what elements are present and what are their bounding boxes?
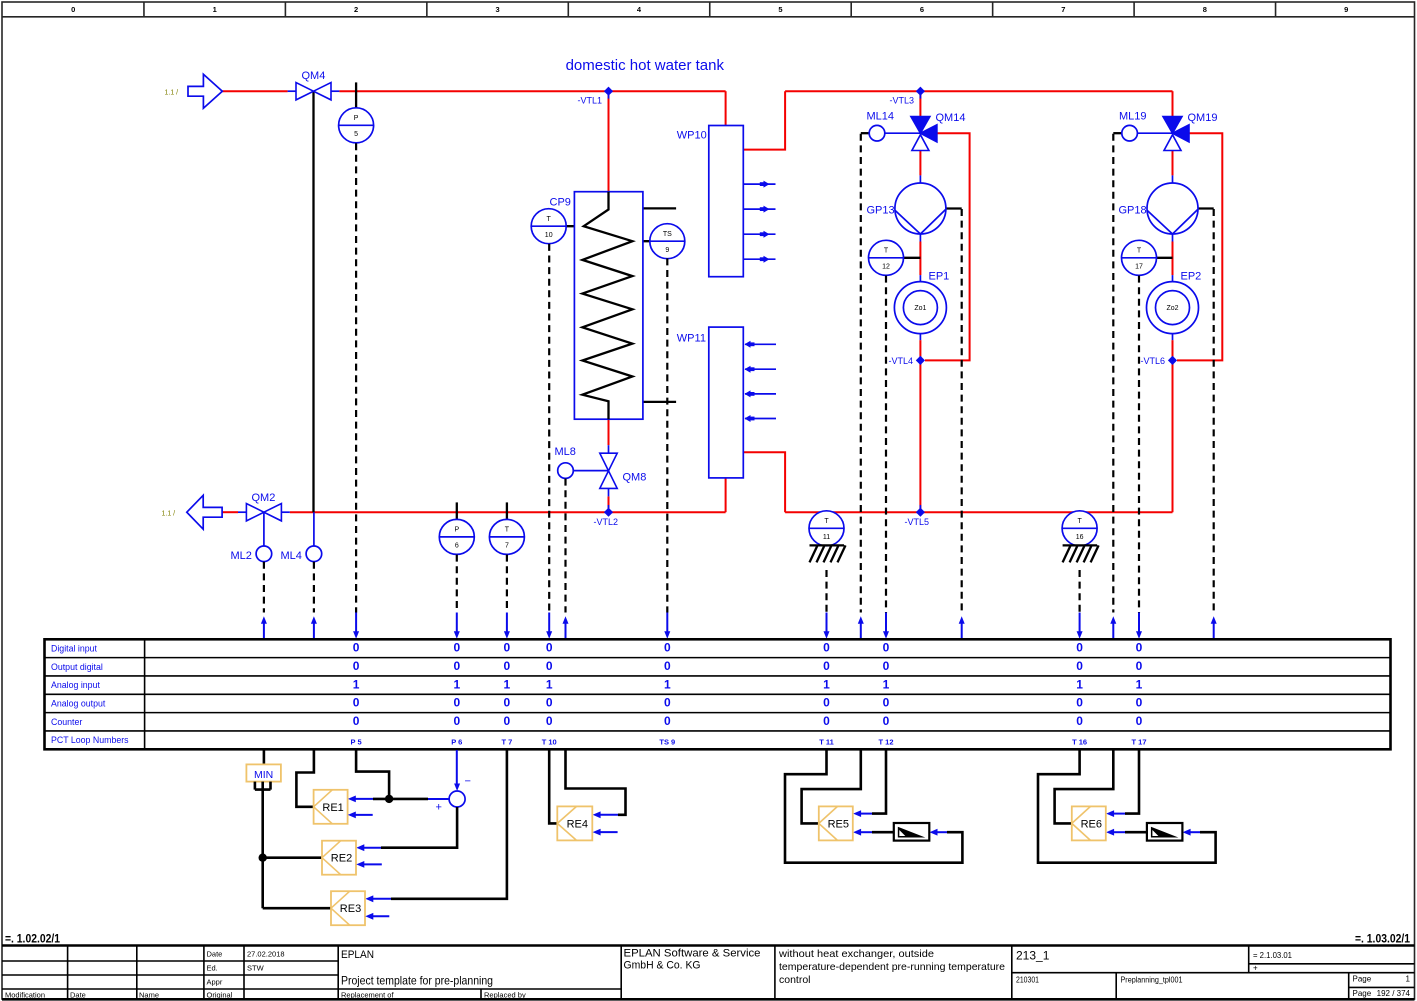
wire EP2 to return line via VTL6 bbox=[1172, 340, 1174, 512]
svg-text:6: 6 bbox=[455, 543, 459, 550]
svg-text:0: 0 bbox=[546, 659, 553, 673]
svg-text:= 2.1.03.01: = 2.1.03.01 bbox=[1253, 951, 1293, 960]
junction dot P5 branch bbox=[385, 795, 393, 803]
svg-text:4: 4 bbox=[637, 5, 642, 14]
svg-text:7: 7 bbox=[505, 543, 509, 550]
svg-text:QM14: QM14 bbox=[936, 112, 966, 124]
svg-text:Preplanning_tpl001: Preplanning_tpl001 bbox=[1121, 976, 1183, 985]
wire QM14 to pump GP13 bbox=[919, 151, 921, 176]
wire QM19 to pump GP18 bbox=[1172, 151, 1174, 176]
wire ML8 column to RE4 input 1 bbox=[566, 750, 626, 815]
WP10 output arrow 1 bbox=[744, 181, 776, 188]
svg-text:temperature-dependent pre-runn: temperature-dependent pre-running temper… bbox=[779, 961, 1005, 973]
summing point circle bbox=[449, 791, 465, 807]
svg-text:STW: STW bbox=[247, 964, 265, 973]
svg-text:10: 10 bbox=[545, 232, 553, 239]
function block MIN bbox=[246, 764, 281, 781]
svg-text:5: 5 bbox=[778, 5, 782, 14]
svg-text:12: 12 bbox=[882, 264, 890, 271]
svg-text:-VTL1: -VTL1 bbox=[578, 96, 603, 106]
svg-text:RE4: RE4 bbox=[567, 818, 588, 830]
wire EP1 to return line via VTL4 bbox=[919, 340, 921, 512]
node -VTL3 bbox=[916, 87, 925, 96]
svg-text:0: 0 bbox=[504, 659, 511, 673]
svg-text:EPLAN Software & Service: EPLAN Software & Service bbox=[624, 948, 761, 960]
wire stub QM2 left bbox=[238, 511, 246, 513]
hand switch ML4 bbox=[306, 546, 322, 562]
input arrow at x=886.0 bbox=[883, 613, 889, 639]
wire pump GP13 to EP1 bbox=[919, 242, 921, 276]
dashed signal line ML8 bbox=[564, 479, 566, 613]
ramp RE6 input arrow bbox=[1183, 829, 1200, 836]
svg-text:T: T bbox=[1137, 248, 1142, 255]
svg-text:Ed.: Ed. bbox=[207, 964, 218, 973]
RE1 input 1 arrow bbox=[348, 796, 373, 803]
svg-text:-VTL5: -VTL5 bbox=[905, 517, 930, 527]
svg-text:0: 0 bbox=[664, 641, 671, 655]
three-way valve QM14 bbox=[911, 117, 937, 151]
svg-text:6: 6 bbox=[920, 5, 924, 14]
svg-text:0: 0 bbox=[353, 641, 360, 655]
wire stub above node VTL2 bbox=[608, 505, 610, 512]
svg-text:CP9: CP9 bbox=[550, 197, 571, 209]
RE4 input 1 arrow bbox=[593, 811, 618, 818]
wire tank coil to sensor TS9 bbox=[632, 240, 649, 242]
svg-text:0: 0 bbox=[823, 714, 830, 728]
WP11 input arrow 1 bbox=[745, 341, 777, 348]
svg-text:9: 9 bbox=[665, 247, 669, 254]
svg-text:RE1: RE1 bbox=[322, 802, 343, 814]
svg-text:+: + bbox=[1253, 964, 1258, 973]
sensor TS9 bbox=[650, 224, 685, 259]
wire ramp to RE5 input 2 bbox=[872, 831, 894, 834]
svg-text:Page: Page bbox=[1353, 975, 1372, 984]
controller function block RE1 bbox=[314, 790, 348, 824]
WP11 input arrow 2 bbox=[745, 366, 777, 373]
svg-text:GmbH & Co. KG: GmbH & Co. KG bbox=[624, 960, 701, 972]
svg-text:T 7: T 7 bbox=[501, 737, 512, 746]
svg-text:2: 2 bbox=[354, 5, 358, 14]
wire ML14 column to RE5 left bbox=[802, 750, 861, 823]
input arrow at x=1079.6 bbox=[1077, 613, 1083, 639]
svg-text:EP1: EP1 bbox=[929, 271, 950, 283]
pump GP13 bbox=[895, 183, 946, 234]
svg-text:ML4: ML4 bbox=[281, 550, 302, 562]
table values row Analog output bbox=[353, 696, 1143, 710]
svg-text:EP2: EP2 bbox=[1181, 271, 1202, 283]
sensor T11 bbox=[809, 511, 844, 546]
RE5 input 2 arrow bbox=[853, 829, 872, 836]
dashed signal line T17 bbox=[1138, 276, 1140, 613]
svg-text:Page: Page bbox=[1353, 989, 1372, 998]
svg-text:0: 0 bbox=[1076, 696, 1083, 710]
node -VTL6 bbox=[1168, 356, 1177, 365]
svg-text:1: 1 bbox=[504, 677, 511, 691]
svg-text:Date: Date bbox=[207, 950, 223, 959]
wire return pipe to page arrow bbox=[222, 511, 238, 513]
svg-text:0: 0 bbox=[1136, 714, 1143, 728]
wire pump GP18 to EP2 bbox=[1172, 242, 1174, 276]
wire drop into QM19 bbox=[1172, 91, 1174, 116]
junction dot MIN bus bbox=[259, 854, 267, 862]
dashed signal line T12 bbox=[885, 276, 887, 613]
wire VTL1 drop to tank CP9 bbox=[608, 91, 610, 192]
wire junction to summing point bbox=[389, 798, 428, 801]
svg-text:Analog output: Analog output bbox=[51, 699, 106, 709]
wire T11 column loop to ramp bbox=[785, 750, 962, 863]
wire stub below node VTL3 bbox=[919, 91, 921, 98]
input arrow at x=549.2 bbox=[546, 613, 552, 639]
column header row bbox=[2, 2, 1415, 17]
wire stub GP13 bottom bbox=[919, 234, 921, 242]
ramp function ramp for RE5 bbox=[894, 823, 930, 841]
hand switch ML14 bbox=[869, 125, 885, 141]
wire stub QM2 right bbox=[281, 511, 289, 513]
svg-text:1.1 /: 1.1 / bbox=[162, 511, 176, 518]
dashed signal line T11 bbox=[825, 570, 827, 613]
wire P6 column to summing point bbox=[456, 750, 458, 785]
I/O summary table bbox=[45, 639, 1391, 749]
wire QM4 stem bbox=[312, 91, 314, 512]
valve QM2 bbox=[246, 504, 281, 521]
wire tank secondary stub top bbox=[643, 207, 676, 209]
dashed signal line GP13 bbox=[961, 209, 963, 613]
svg-text:17: 17 bbox=[1135, 264, 1143, 271]
svg-text:0: 0 bbox=[1136, 659, 1143, 673]
input arrow at x=506.9 bbox=[504, 613, 510, 639]
wire stub QM8 bottom bbox=[608, 488, 610, 496]
sensor T12 bbox=[869, 240, 904, 275]
svg-text:192 / 374: 192 / 374 bbox=[1377, 989, 1411, 998]
svg-text:P 6: P 6 bbox=[451, 737, 462, 746]
svg-text:-VTL6: -VTL6 bbox=[1141, 356, 1166, 366]
wire tap to sensor P5 bbox=[355, 82, 357, 107]
wire ML4 column to RE1 left bbox=[296, 750, 314, 807]
svg-text:GP18: GP18 bbox=[1119, 205, 1147, 217]
svg-text:−: − bbox=[465, 776, 471, 788]
dashed signal line ML19 bbox=[1112, 134, 1114, 613]
input arrow at x=356.1 bbox=[353, 613, 359, 639]
page reference arrow out 1.1 bbox=[187, 495, 222, 529]
wire T12 column to RE5 input 1 bbox=[872, 750, 886, 814]
svg-text:+: + bbox=[436, 802, 442, 814]
svg-text:0: 0 bbox=[883, 641, 890, 655]
controller function block RE3 bbox=[331, 891, 365, 925]
svg-text:8: 8 bbox=[1203, 5, 1207, 14]
svg-text:0: 0 bbox=[823, 641, 830, 655]
wire supply pipe QM4 to WP10 drop bbox=[339, 90, 725, 92]
tank heating coil bbox=[582, 192, 632, 420]
RE4 input 2 arrow bbox=[593, 829, 618, 836]
controller function block RE5 bbox=[819, 806, 853, 840]
dashed signal line ML2 bbox=[263, 562, 265, 613]
dashed signal line T10 bbox=[548, 244, 550, 613]
wire return pipe QM2 to WP11 riser bbox=[290, 511, 726, 513]
heat consumer WP10 bbox=[709, 126, 744, 277]
RE1 input 2 arrow bbox=[348, 812, 373, 819]
svg-text:T 11: T 11 bbox=[819, 737, 834, 746]
node -VTL5 bbox=[916, 508, 925, 517]
valve QM4 bbox=[296, 83, 331, 100]
svg-text:Digital input: Digital input bbox=[51, 644, 98, 654]
wire summing output to RE2 input 1 bbox=[381, 807, 457, 848]
WP10 output arrow 2 bbox=[744, 206, 776, 213]
svg-text:-VTL4: -VTL4 bbox=[889, 356, 914, 366]
measuring point hatch under T11 bbox=[810, 545, 846, 562]
table values row PCT Loop Numbers bbox=[351, 737, 1147, 746]
heat consumer WP11 bbox=[709, 327, 744, 478]
svg-text:WP11: WP11 bbox=[677, 333, 706, 345]
svg-text:0: 0 bbox=[546, 641, 553, 655]
svg-text:MIN: MIN bbox=[254, 769, 273, 781]
svg-text:16: 16 bbox=[1076, 534, 1084, 541]
wire tap to sensor T7 bbox=[506, 502, 508, 519]
svg-text:T: T bbox=[505, 527, 510, 534]
WP11 input arrow 3 bbox=[745, 390, 777, 397]
svg-text:0: 0 bbox=[546, 714, 553, 728]
svg-text:0: 0 bbox=[883, 659, 890, 673]
tank vessel CP9 bbox=[574, 192, 643, 420]
svg-text:1: 1 bbox=[213, 5, 217, 14]
dashed signal line P5 bbox=[355, 143, 357, 612]
svg-text:Replacement of: Replacement of bbox=[341, 991, 394, 1000]
svg-text:5: 5 bbox=[354, 131, 358, 138]
sensor T17 bbox=[1122, 240, 1157, 275]
svg-text:Replaced by: Replaced by bbox=[484, 991, 526, 1000]
wire QM2 stem to ML2 bbox=[263, 512, 265, 546]
svg-text:0: 0 bbox=[1076, 641, 1083, 655]
svg-text:0: 0 bbox=[1136, 641, 1143, 655]
heat meter EP2 bbox=[1147, 282, 1199, 334]
wire supply pipe WP10 to QM19 bbox=[785, 90, 1172, 92]
svg-text:P: P bbox=[354, 115, 359, 122]
svg-text:0: 0 bbox=[504, 641, 511, 655]
svg-text:0: 0 bbox=[353, 714, 360, 728]
svg-text:0: 0 bbox=[353, 696, 360, 710]
sensor T10 bbox=[531, 209, 566, 244]
wire WP10 outlet riser bbox=[743, 91, 785, 149]
output arrow at x=565.5 bbox=[563, 616, 569, 639]
svg-text:QM19: QM19 bbox=[1188, 112, 1218, 124]
wire valve QM8 to VTL2 bbox=[608, 496, 610, 512]
svg-text:1: 1 bbox=[823, 677, 830, 691]
wire sensor T17 tap bbox=[1155, 257, 1172, 259]
output arrow at x=313.9 bbox=[311, 616, 317, 639]
wire ML14 signal elbow bbox=[861, 132, 869, 134]
dashed signal line P6 bbox=[456, 555, 458, 613]
wire stub GP18 bottom bbox=[1172, 234, 1174, 242]
wire junction to RE1 input 1 bbox=[373, 798, 389, 801]
ramp function ramp for RE6 bbox=[1147, 823, 1183, 841]
svg-text:210301: 210301 bbox=[1016, 976, 1039, 985]
svg-text:0: 0 bbox=[453, 696, 460, 710]
wire supply pipe from source arrow to valve QM4 bbox=[222, 90, 287, 92]
svg-text:0: 0 bbox=[823, 696, 830, 710]
svg-text:Modification: Modification bbox=[5, 991, 45, 1000]
wire ML19 signal elbow bbox=[1113, 132, 1122, 134]
svg-text:domestic hot water tank: domestic hot water tank bbox=[566, 57, 725, 74]
svg-text:T: T bbox=[1077, 518, 1082, 525]
svg-text:0: 0 bbox=[453, 659, 460, 673]
input arrow at x=456.8 bbox=[454, 613, 460, 639]
table values row Counter bbox=[353, 714, 1143, 728]
wire stub QM8 top bbox=[608, 445, 610, 453]
RE6 input 2 arrow bbox=[1106, 829, 1125, 836]
svg-text:1: 1 bbox=[353, 677, 360, 691]
wire P5 column to junction bbox=[356, 750, 389, 799]
wire stub below node VTL1 bbox=[608, 91, 610, 98]
svg-text:0: 0 bbox=[546, 696, 553, 710]
wire stub QM4 left bbox=[288, 90, 296, 92]
hand switch ML8 bbox=[558, 463, 574, 479]
svg-text:RE3: RE3 bbox=[340, 903, 361, 915]
svg-text:Project template for pre-plann: Project template for pre-planning bbox=[341, 974, 493, 988]
svg-text:11: 11 bbox=[823, 534, 830, 541]
wire stub EP1 top bbox=[919, 275, 921, 282]
svg-text:EPLAN: EPLAN bbox=[341, 949, 374, 961]
svg-text:ML14: ML14 bbox=[867, 111, 895, 123]
output arrow at x=263.9 bbox=[261, 616, 267, 639]
svg-text:WP10: WP10 bbox=[677, 130, 707, 142]
svg-text:T 10: T 10 bbox=[542, 737, 557, 746]
svg-text:0: 0 bbox=[1076, 714, 1083, 728]
svg-text:7: 7 bbox=[1061, 5, 1065, 14]
RE2 input 2 arrow bbox=[356, 861, 382, 868]
wire stub GP18 top bbox=[1172, 175, 1174, 183]
svg-text:1: 1 bbox=[883, 677, 890, 691]
dashed signal line T16 bbox=[1078, 570, 1080, 613]
svg-text:0: 0 bbox=[504, 696, 511, 710]
svg-text:0: 0 bbox=[1076, 659, 1083, 673]
svg-text:1: 1 bbox=[1136, 677, 1143, 691]
svg-text:0: 0 bbox=[453, 641, 460, 655]
svg-text:PCT Loop Numbers: PCT Loop Numbers bbox=[51, 735, 129, 745]
svg-text:T 12: T 12 bbox=[878, 737, 893, 746]
svg-text:P: P bbox=[454, 527, 459, 534]
title block bbox=[2, 946, 1415, 1000]
svg-text:1: 1 bbox=[546, 677, 553, 691]
table values row Output digital bbox=[353, 659, 1143, 673]
sensor T7 bbox=[489, 519, 524, 554]
output arrow at x=1113.3 bbox=[1110, 616, 1116, 639]
svg-text:Date: Date bbox=[70, 991, 86, 1000]
dashed signal line ML4 bbox=[313, 562, 315, 613]
svg-text:RE5: RE5 bbox=[828, 818, 849, 830]
svg-text:3: 3 bbox=[495, 5, 499, 14]
RE5 input 1 arrow bbox=[853, 810, 872, 817]
svg-text:-VTL3: -VTL3 bbox=[890, 96, 915, 106]
RE3 input 2 arrow bbox=[365, 913, 389, 920]
wire ML19 to QM19 bbox=[1137, 132, 1172, 134]
controller function block RE6 bbox=[1072, 806, 1106, 840]
svg-text:0: 0 bbox=[504, 714, 511, 728]
wire ML2 column to MIN bbox=[263, 750, 266, 764]
wire stub EP2 top bbox=[1172, 275, 1174, 282]
wire QM19 mixing branch bbox=[1177, 133, 1222, 360]
svg-text:Analog input: Analog input bbox=[51, 680, 100, 690]
svg-text:TS 9: TS 9 bbox=[659, 737, 675, 746]
svg-text:ML8: ML8 bbox=[555, 446, 576, 458]
wire ML4 drop bbox=[313, 512, 315, 546]
svg-text:T: T bbox=[884, 248, 889, 255]
wire MIN bus to RE2 bbox=[263, 856, 322, 859]
summing input arrow plus bbox=[428, 796, 457, 803]
svg-text:0: 0 bbox=[883, 696, 890, 710]
svg-text:Name: Name bbox=[139, 991, 159, 1000]
svg-text:RE2: RE2 bbox=[331, 853, 352, 865]
dashed signal line T7 bbox=[506, 555, 508, 613]
wire sensor T12 tap bbox=[903, 257, 920, 259]
hand switch ML19 bbox=[1122, 125, 1138, 141]
valve QM8 bbox=[600, 453, 617, 488]
input arrow at x=1139.0 bbox=[1136, 613, 1142, 639]
wire stub EP2 bottom bbox=[1172, 334, 1174, 341]
svg-text:0: 0 bbox=[1136, 696, 1143, 710]
sensor T16 bbox=[1062, 511, 1097, 546]
svg-text:Original: Original bbox=[207, 991, 233, 1000]
wire tank CP9 to valve QM8 bbox=[608, 419, 610, 445]
svg-text:-VTL2: -VTL2 bbox=[594, 517, 619, 527]
wire ML8 to QM8 bbox=[573, 470, 608, 472]
wire T17 column to RE6 input 1 bbox=[1125, 750, 1139, 814]
node -VTL2 bbox=[604, 508, 613, 517]
sensor P5 bbox=[339, 108, 374, 143]
wire WP11 outlet drop bbox=[743, 452, 785, 512]
svg-text:1.1 /: 1.1 / bbox=[165, 90, 179, 97]
svg-text:0: 0 bbox=[71, 5, 75, 14]
wire MIN output bracket bbox=[255, 782, 271, 790]
wire MIN output bus down bbox=[261, 782, 264, 909]
svg-text:control: control bbox=[779, 974, 811, 986]
output arrow at x=961.7 bbox=[959, 616, 965, 639]
svg-text:0: 0 bbox=[664, 659, 671, 673]
WP10 output arrow 3 bbox=[744, 231, 776, 238]
svg-text:0: 0 bbox=[664, 696, 671, 710]
summing input arrow minus bbox=[454, 784, 460, 792]
sensor P6 bbox=[439, 519, 474, 554]
dashed signal line GP18 bbox=[1213, 209, 1215, 613]
wire return pipe WP11 to VTL6 branch bbox=[785, 511, 1172, 513]
svg-text:=. 1.03.02/1: =. 1.03.02/1 bbox=[1355, 932, 1410, 946]
wire pump GP13 signal stub bbox=[946, 207, 962, 209]
dashed signal line ML14 bbox=[860, 134, 862, 613]
svg-text:P 5: P 5 bbox=[351, 737, 362, 746]
wire ML14 to QM14 bbox=[885, 132, 921, 134]
svg-text:QM4: QM4 bbox=[302, 70, 326, 82]
controller function block RE2 bbox=[322, 841, 356, 875]
svg-text:0: 0 bbox=[883, 714, 890, 728]
measuring point hatch under T16 bbox=[1063, 545, 1099, 562]
title block texts bbox=[5, 948, 1411, 1000]
svg-text:GP13: GP13 bbox=[867, 205, 895, 217]
svg-text:T 16: T 16 bbox=[1072, 737, 1087, 746]
pump GP18 bbox=[1147, 183, 1198, 234]
svg-text:1: 1 bbox=[453, 677, 460, 691]
svg-text:0: 0 bbox=[353, 659, 360, 673]
wire stub EP1 bottom bbox=[919, 334, 921, 341]
svg-text:27.02.2018: 27.02.2018 bbox=[247, 950, 285, 959]
svg-text:ML19: ML19 bbox=[1119, 111, 1147, 123]
wire tap to sensor P6 bbox=[456, 502, 458, 519]
node -VTL1 bbox=[604, 87, 613, 96]
input arrow at x=826.5 bbox=[824, 613, 830, 639]
WP11 input arrow 4 bbox=[745, 415, 777, 422]
wire T7 column to RE3 input 1 bbox=[391, 750, 507, 899]
svg-text:ML2: ML2 bbox=[231, 550, 252, 562]
wire T16 column loop to ramp bbox=[1038, 750, 1216, 863]
wire QM14 mixing branch bbox=[925, 133, 970, 360]
node -VTL4 bbox=[916, 356, 925, 365]
